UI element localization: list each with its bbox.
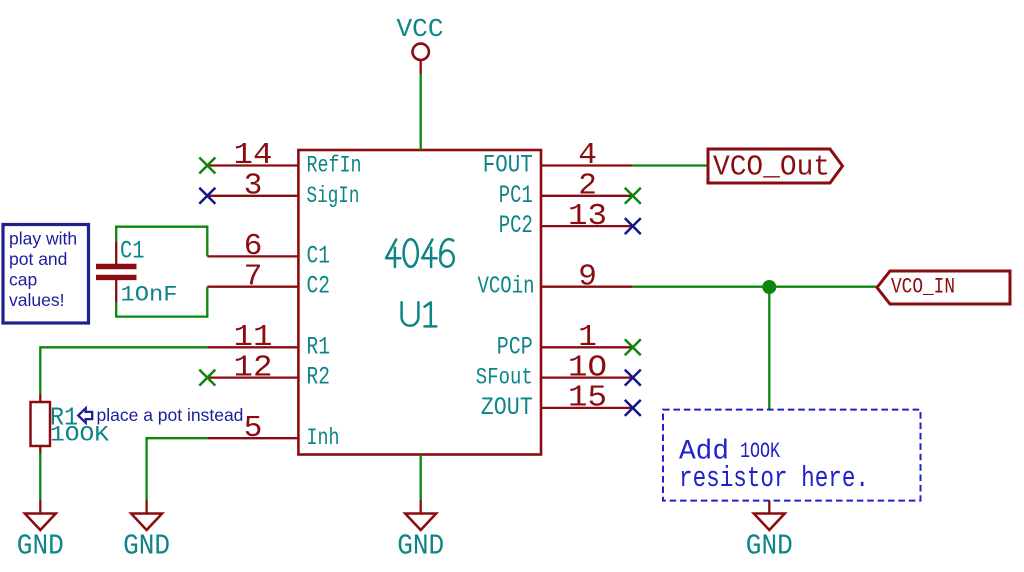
svg-text:1OnF: 1OnF (121, 283, 178, 308)
annotation Add (679, 437, 729, 468)
no-connect X pin 2 (625, 188, 641, 204)
svg-text:values!: values! (9, 290, 64, 310)
svg-text:RefIn: RefIn (307, 153, 362, 179)
value label 4046 (386, 239, 454, 267)
pin 5 Inh (207, 411, 339, 451)
svg-text:SFout: SFout (476, 365, 533, 391)
svg-text:9: 9 (578, 259, 597, 294)
svg-text:VCO_IN: VCO_IN (891, 275, 955, 300)
svg-text:1OOK: 1OOK (740, 439, 781, 464)
no-connect X pin 1 (625, 339, 641, 355)
wire C1 bottom to pin 7 (116, 287, 207, 317)
ground under placeholder box (746, 514, 793, 563)
no-connect X pin 15 (625, 400, 641, 416)
reference R1 (50, 403, 78, 433)
svg-text:VCC: VCC (397, 14, 444, 44)
svg-text:GND: GND (123, 530, 170, 563)
svg-text:1OOK: 1OOK (50, 423, 110, 448)
wire R1 to ground (39, 453, 41, 500)
svg-text:GND: GND (397, 530, 444, 563)
ground under U1 (397, 500, 444, 563)
svg-text:R2: R2 (307, 363, 331, 392)
svg-text:ZOUT: ZOUT (481, 393, 533, 422)
annotation place a pot instead (97, 405, 244, 425)
capacitor C1 (96, 242, 137, 302)
svg-text:SigIn: SigIn (307, 183, 360, 209)
svg-text:C1: C1 (307, 241, 331, 270)
global label VCO_IN (877, 271, 1010, 304)
pin 2 PC1 (499, 169, 633, 210)
svg-text:C1: C1 (120, 236, 145, 265)
svg-text:PC2: PC2 (499, 211, 533, 240)
value 100K (50, 423, 110, 448)
no-connect X pin 14 (199, 158, 215, 174)
pin 7 C2 (207, 259, 330, 300)
ground under R1 (17, 500, 64, 563)
note box play with pot and cap values (3, 225, 89, 324)
svg-text:cap: cap (9, 269, 37, 289)
svg-text:VCOin: VCOin (478, 274, 535, 301)
wire pin 11 to R1 (40, 347, 207, 394)
no-connect X pin 3 (199, 188, 215, 204)
wire pin 9 to VCO_IN label (633, 286, 877, 288)
svg-text:GND: GND (17, 530, 64, 563)
svg-text:VCO_Out: VCO_Out (713, 151, 830, 184)
no-connect X pin 13 (625, 218, 641, 234)
annotation arrow (78, 408, 92, 423)
wire C1 top to pin 6 (116, 227, 207, 257)
pin 3 SigIn (207, 169, 359, 209)
svg-text:pot and: pot and (9, 249, 67, 269)
resistor R1 (31, 394, 51, 453)
wire VCC to U1 top (420, 74, 422, 150)
svg-text:PCP: PCP (497, 332, 533, 361)
wire pin 4 to VCO_Out label (633, 164, 708, 166)
pin 6 C1 (207, 229, 330, 270)
svg-text:play with: play with (9, 228, 77, 248)
pin 14 RefIn (207, 138, 361, 178)
annotation resistor here. (679, 462, 869, 495)
pin 10 SFout (476, 350, 633, 390)
svg-text:GND: GND (746, 530, 793, 563)
svg-text:place a pot instead: place a pot instead (97, 405, 244, 425)
svg-text:resistor here.: resistor here. (679, 462, 869, 495)
power symbol VCC (397, 14, 444, 74)
value 10nF (121, 283, 178, 308)
svg-text:12: 12 (234, 350, 273, 385)
label C1 (120, 236, 145, 265)
global label VCO_Out (708, 149, 843, 184)
pin 12 R2 (207, 350, 330, 391)
wire junction to resistor placeholder box (768, 287, 770, 410)
wire U1 bottom to ground (420, 455, 422, 501)
svg-text:5: 5 (244, 411, 263, 446)
wire box to ground (768, 501, 770, 514)
annotation 100K in box (740, 439, 781, 464)
svg-text:FOUT: FOUT (483, 151, 533, 180)
no-connect X pin 12 (199, 370, 215, 386)
pin 15 ZOUT (481, 381, 633, 422)
svg-text:C2: C2 (307, 272, 331, 301)
no-connect X pin 10 (625, 370, 641, 386)
reference U1 (402, 302, 437, 326)
pin 1 PCP (497, 320, 633, 361)
svg-text:R1: R1 (307, 332, 331, 361)
ground under pin 5 (123, 500, 170, 563)
svg-text:13: 13 (568, 199, 607, 234)
pin 4 FOUT (483, 138, 633, 179)
svg-text:7: 7 (244, 259, 263, 294)
resistor placeholder dashed box (663, 410, 921, 501)
pin 9 VCOin (478, 259, 633, 300)
wire pin 5 to ground (147, 438, 208, 500)
svg-text:15: 15 (568, 381, 607, 416)
svg-text:3: 3 (244, 169, 263, 204)
pin 11 R1 (207, 320, 330, 361)
junction node (762, 280, 776, 294)
pin 13 PC2 (499, 199, 633, 240)
svg-text:PC1: PC1 (499, 181, 533, 210)
IC U1 body (298, 150, 541, 455)
svg-text:Inh: Inh (307, 425, 340, 451)
